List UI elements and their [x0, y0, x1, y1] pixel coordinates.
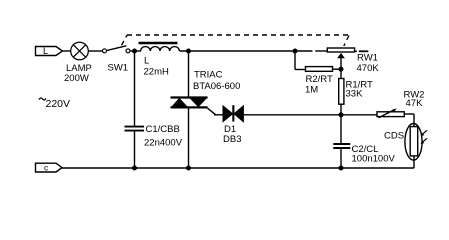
- wire R2 branch down: [294, 51, 296, 70]
- svg-text:CDS: CDS: [384, 131, 404, 142]
- node bottom of C2: [339, 166, 343, 170]
- svg-text:22mH: 22mH: [144, 67, 169, 78]
- wire TRIAC cathode to bottom rail: [188, 107, 190, 168]
- resistor R1/RT: [340, 69, 342, 78]
- svg-text:220V: 220V: [46, 98, 71, 110]
- node junction A: [339, 67, 343, 71]
- node bottom of TRIAC: [187, 166, 191, 170]
- wire C1 branch: [134, 51, 136, 126]
- svg-text:47K: 47K: [406, 98, 424, 109]
- svg-text:100n100V: 100n100V: [352, 154, 396, 165]
- bottom rail: [62, 167, 414, 169]
- wire gate to DIAC: [214, 114, 223, 116]
- potentiometer RW2 body: [377, 112, 404, 117]
- svg-text:DB3: DB3: [223, 134, 241, 145]
- AC source label ~220V: [39, 98, 46, 100]
- capacitor C1/CBB: [125, 127, 145, 131]
- node junction top of R2 branch: [293, 49, 297, 53]
- wire DIAC to junction: [243, 114, 377, 116]
- switch SW1: [103, 46, 131, 53]
- svg-text:L: L: [43, 46, 48, 56]
- wire R2 to junction A: [333, 68, 342, 70]
- photoresistor CDS: [405, 124, 422, 169]
- mechanical link dashed: [122, 35, 350, 46]
- wire TRIAC anode: [188, 51, 190, 97]
- svg-text:200W: 200W: [64, 73, 89, 84]
- wire lamp to switch: [89, 50, 103, 52]
- resistor R2/RT: [306, 67, 333, 72]
- top rail wire: [179, 50, 312, 52]
- svg-text:1M: 1M: [305, 85, 318, 96]
- svg-text:470K: 470K: [357, 63, 380, 74]
- svg-text:BTA06-600: BTA06-600: [193, 81, 240, 92]
- DIAC D1 DB3: [223, 105, 243, 121]
- svg-text:33K: 33K: [346, 89, 364, 100]
- terminal L tag: [36, 47, 63, 56]
- wire tag to lamp: [63, 50, 71, 52]
- RW2 diagonal arrow: [379, 108, 397, 117]
- node bottom of C1: [133, 166, 137, 170]
- RW1 wiper arrow: [337, 53, 345, 69]
- potentiometer RW1 body: [327, 48, 354, 52]
- TRIAC BTA06-600: [171, 98, 216, 115]
- wire switch to L: [130, 50, 141, 52]
- inductor L 22mH: [139, 43, 180, 51]
- node junction B: [339, 113, 343, 117]
- svg-text:L: L: [144, 56, 149, 67]
- wire RW2 to LDR: [404, 113, 414, 115]
- svg-text:22n400V: 22n400V: [144, 138, 183, 149]
- RW1 right stub and dash: [355, 50, 357, 52]
- svg-text:TRIAC: TRIAC: [194, 70, 223, 81]
- CDS light arrows: [421, 130, 427, 144]
- wire C1 to bottom rail: [134, 131, 136, 168]
- terminal c tag: [36, 163, 63, 172]
- svg-text:C1/CBB: C1/CBB: [146, 124, 180, 135]
- svg-text:SW1: SW1: [108, 63, 129, 74]
- node junction top of C1: [133, 49, 137, 53]
- node junction top of TRIAC: [187, 49, 191, 53]
- lamp EL1: [71, 42, 89, 60]
- svg-text:R2/RT: R2/RT: [306, 74, 333, 85]
- capacitor C2/CL: [333, 115, 350, 168]
